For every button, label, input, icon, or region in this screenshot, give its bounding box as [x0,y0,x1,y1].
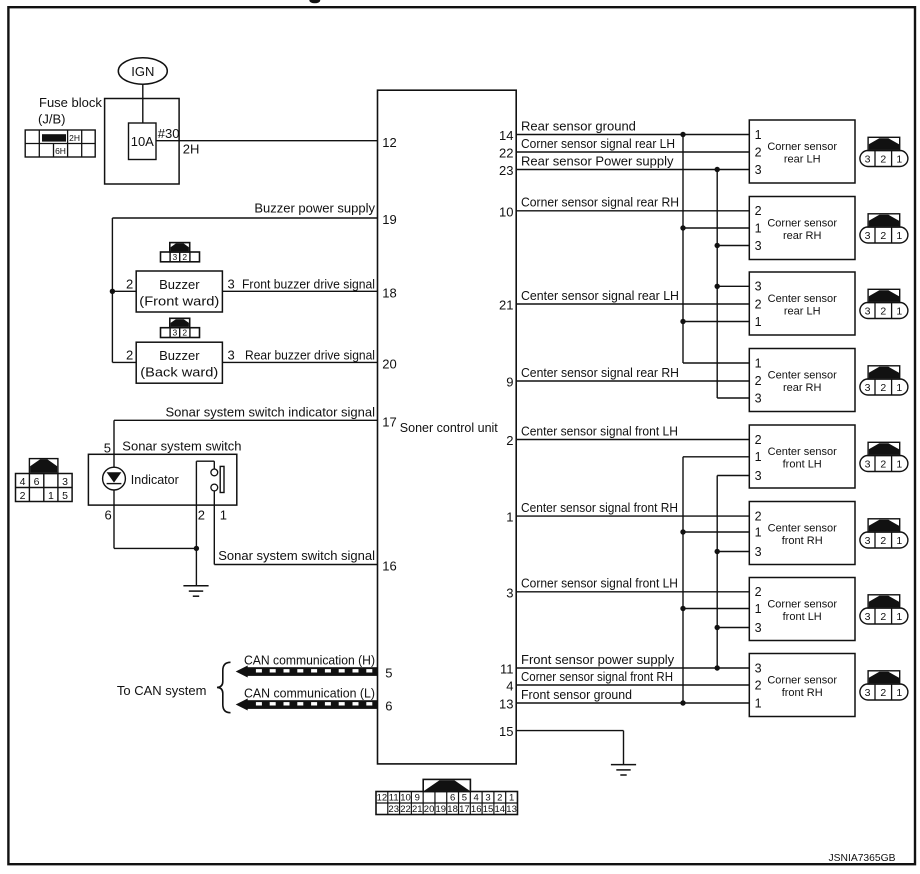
svg-text:Buzzer: Buzzer [159,277,200,292]
svg-text:2: 2 [506,433,513,448]
svg-text:Center sensor signal front LH: Center sensor signal front LH [521,423,678,438]
junction (683.0,228) [680,225,685,230]
wire bus to front LH center pin 1 [683,456,749,458]
wire pin 18 front buzzer drive [222,290,377,292]
svg-text:Rear buzzer drive signal: Rear buzzer drive signal [245,347,375,362]
svg-text:JSNIA7365GB: JSNIA7365GB [829,852,896,864]
sensor box Center sensor front RH [749,502,855,565]
svg-text:3: 3 [755,469,762,483]
svg-text:Indicator: Indicator [131,473,179,487]
buzzer BZ2 rear [136,342,222,383]
svg-text:2: 2 [198,508,205,523]
wire pin 6 joins ground [114,547,196,549]
svg-text:12: 12 [382,135,396,150]
svg-text:20: 20 [382,357,396,372]
svg-text:Corner sensor: Corner sensor [767,218,837,230]
svg-text:17: 17 [382,415,396,430]
svg-text:Corner sensor: Corner sensor [767,141,837,153]
svg-text:13: 13 [499,697,513,712]
junction buzzer power bus [110,289,115,294]
wire bus to front buzzer pin 2 [112,290,136,292]
wire Corner sensor signal front LH [516,591,749,593]
6-pin switch connector [16,459,73,502]
svg-text:10A: 10A [131,134,154,149]
svg-text:Sonar system switch: Sonar system switch [122,439,241,454]
svg-text:1: 1 [755,356,762,370]
svg-text:Center sensor: Center sensor [768,523,837,535]
svg-text:17: 17 [459,804,470,815]
svg-text:(Front ward): (Front ward) [139,294,219,309]
svg-text:5: 5 [62,490,68,502]
switch contact assembly [196,461,224,505]
svg-text:6: 6 [34,476,40,488]
wire CAN L dashed arrow [236,699,378,711]
svg-text:6: 6 [450,793,455,804]
svg-text:3: 3 [755,280,762,294]
svg-text:Center sensor: Center sensor [768,293,837,305]
junction (717.2,245.5) [715,243,720,248]
wire Center sensor signal rear LH [516,303,749,305]
wire Corner sensor signal front RH [516,684,749,686]
cropped title glyph [309,0,320,3]
junction (717.2,627.5) [715,625,720,630]
svg-text:Front sensor ground: Front sensor ground [521,687,632,702]
svg-text:Rear sensor Power supply: Rear sensor Power supply [521,153,674,168]
soner control unit U1 [378,90,517,764]
svg-text:4: 4 [474,793,479,804]
svg-text:1: 1 [755,221,762,235]
svg-text:9: 9 [506,375,513,390]
wire CAN H dashed arrow [236,666,378,678]
svg-text:3: 3 [228,276,235,291]
junction (683.0,608.5) [680,606,685,611]
junction (683.0,703) [680,700,685,705]
svg-text:Center sensor signal front RH: Center sensor signal front RH [521,500,678,515]
connector Center sensor rear LH [860,289,908,318]
svg-text:front LH: front LH [783,611,822,623]
svg-text:22: 22 [400,804,411,815]
rear ground bus [682,135,684,364]
wire Center sensor signal front LH [516,439,749,441]
svg-text:16: 16 [382,559,396,574]
svg-text:23: 23 [388,804,399,815]
svg-text:15: 15 [499,724,513,739]
connector above front buzzer [161,243,200,262]
wire fuse to pin 12 [156,140,378,142]
connector Corner sensor rear RH [860,214,908,243]
wire indicator cathode pin 6 [113,490,115,548]
wire pin 19 buzzer power supply [112,217,377,219]
svg-text:18: 18 [382,286,396,301]
svg-text:2H: 2H [183,142,200,157]
svg-text:1: 1 [755,315,762,329]
svg-text:Buzzer power supply: Buzzer power supply [254,201,375,216]
svg-text:3: 3 [755,621,762,635]
svg-text:6: 6 [104,508,111,523]
svg-text:10: 10 [400,793,411,804]
connector Center sensor front LH [860,442,908,471]
svg-text:2: 2 [126,276,133,291]
svg-text:Sonar system switch signal: Sonar system switch signal [218,548,375,563]
ground switch [183,586,208,596]
svg-text:14: 14 [495,804,506,815]
sensor box Center sensor rear RH [749,349,855,412]
junction (717.2,668) [715,665,720,670]
svg-text:11: 11 [389,793,399,804]
svg-text:4: 4 [506,679,513,694]
brace to CAN system [217,662,231,712]
wire pin 20 rear buzzer drive [222,361,377,363]
wire bus to rear LH center pin 1 [683,321,749,323]
svg-text:Center sensor: Center sensor [768,370,837,382]
svg-text:3: 3 [755,545,762,559]
sonar system switch SW1 [88,454,236,505]
junction (717.2,551.5) [715,549,720,554]
rear power bus [716,170,718,399]
svg-text:#30: #30 [158,126,180,141]
power source IGN [118,58,167,84]
svg-text:3: 3 [485,793,490,804]
wire bus to rear RH corner pin 1 [683,227,749,229]
svg-text:9: 9 [415,793,420,804]
wire bus to rear RH corner pin 3 [717,245,749,247]
svg-text:Fuse block: Fuse block [39,95,102,110]
svg-text:2: 2 [755,433,762,447]
svg-text:21: 21 [412,804,423,815]
svg-text:2: 2 [755,374,762,388]
svg-text:1: 1 [755,525,762,539]
junction (683.0,321.5) [680,319,685,324]
svg-text:3: 3 [506,585,513,600]
junction (683.0,532) [680,529,685,534]
svg-text:2: 2 [755,145,762,159]
svg-text:1: 1 [755,128,762,142]
junction (683.0,134.5) [680,132,685,137]
wire pin 15 to ground [516,730,623,732]
svg-text:Rear sensor ground: Rear sensor ground [521,118,636,133]
svg-text:22: 22 [499,146,513,161]
wire Corner sensor signal rear RH [516,210,749,212]
wire switch pin 2 to ground [195,505,197,586]
fuse 10A #30 [129,123,157,160]
svg-text:Soner control unit: Soner control unit [400,421,499,435]
junction (717.2,286.3) [715,284,720,289]
junction (717.2,169.5) [715,167,720,172]
wire pin 17 indicator signal [114,419,378,421]
wire bus to front RH center pin 1 [683,531,749,533]
svg-text:1: 1 [506,510,513,525]
svg-text:front RH: front RH [782,535,823,547]
svg-text:2: 2 [755,585,762,599]
svg-text:CAN communication (L): CAN communication (L) [244,686,375,701]
connector Corner sensor rear LH [860,137,908,166]
svg-text:To CAN system: To CAN system [117,683,207,698]
connector Center sensor front RH [860,519,908,548]
connector Corner sensor front LH [860,595,908,624]
wire pin 16 switch signal [214,564,377,566]
svg-text:20: 20 [424,804,435,815]
svg-text:2: 2 [497,793,502,804]
svg-text:3: 3 [755,391,762,405]
svg-text:2: 2 [755,510,762,524]
svg-text:Corner sensor signal rear RH: Corner sensor signal rear RH [521,195,679,210]
svg-text:Corner sensor signal rear LH: Corner sensor signal rear LH [521,136,675,151]
svg-text:rear LH: rear LH [784,305,821,317]
svg-text:CAN communication (H): CAN communication (H) [244,653,375,668]
wire Rear sensor ground [516,134,749,136]
svg-text:12: 12 [377,793,388,804]
svg-text:Front buzzer drive signal: Front buzzer drive signal [242,276,375,291]
connector Corner sensor front RH [860,671,908,700]
svg-text:front LH: front LH [783,458,822,470]
svg-text:(Back ward): (Back ward) [140,365,218,380]
sensor box Corner sensor rear LH [749,120,855,183]
svg-text:23: 23 [499,163,513,178]
wire Rear sensor Power supply [516,169,749,171]
svg-text:15: 15 [483,804,494,815]
wire bus to rear RH center pin 1 [683,362,749,364]
wire switch pin 1 [213,491,215,565]
svg-text:2: 2 [126,347,133,362]
svg-text:Corner sensor: Corner sensor [767,599,837,611]
svg-text:6: 6 [385,699,392,714]
svg-text:front RH: front RH [782,687,823,699]
svg-text:2: 2 [755,297,762,311]
svg-text:6H: 6H [55,146,66,156]
svg-text:16: 16 [471,804,482,815]
wire Front sensor ground [516,702,749,704]
buzzer BZ1 front [136,271,222,312]
svg-text:Buzzer: Buzzer [159,348,200,363]
sensor box Corner sensor front LH [749,578,855,641]
svg-text:3: 3 [228,347,235,362]
svg-text:10: 10 [499,204,513,219]
ground control unit [611,765,636,775]
front power bus [716,476,718,669]
wire bus to front LH center pin 3 [717,475,749,477]
svg-text:1: 1 [220,508,227,523]
svg-text:21: 21 [499,298,513,313]
svg-text:Center sensor signal rear LH: Center sensor signal rear LH [521,288,679,303]
sensor box Center sensor rear LH [749,272,855,335]
svg-text:19: 19 [382,212,396,227]
svg-text:rear LH: rear LH [784,153,821,165]
svg-text:1: 1 [755,696,762,710]
indicator LED D1 [103,467,126,490]
svg-text:19: 19 [436,804,447,815]
svg-text:11: 11 [500,662,514,677]
svg-text:18: 18 [447,804,458,815]
svg-text:13: 13 [506,804,517,815]
svg-text:IGN: IGN [131,64,154,79]
wire bus to front RH center pin 3 [717,551,749,553]
sensor box Corner sensor front RH [749,654,855,717]
svg-text:3: 3 [755,239,762,253]
wire Corner sensor signal rear LH [516,151,749,153]
svg-text:1: 1 [48,490,54,502]
fuse block connector grid 2H/6H [25,130,95,157]
wire IGN to fuse [142,84,144,123]
svg-text:Corner sensor signal front RH: Corner sensor signal front RH [521,669,673,684]
front ground bus [682,457,684,703]
svg-text:2: 2 [20,490,26,502]
svg-text:14: 14 [499,128,513,143]
sensor box Corner sensor rear RH [749,197,855,260]
svg-text:Center sensor signal rear RH: Center sensor signal rear RH [521,365,679,380]
wire bus to front LH corner pin 1 [683,608,749,610]
wire bus to front LH corner pin 3 [717,627,749,629]
svg-text:Corner sensor: Corner sensor [767,675,837,687]
sensor box Center sensor front LH [749,425,855,488]
svg-text:5: 5 [462,793,467,804]
svg-text:(J/B): (J/B) [38,112,65,127]
wire Center sensor signal front RH [516,515,749,517]
wire bus to rear buzzer pin 2 [112,361,136,363]
connector above rear buzzer [161,318,200,337]
control unit connector pinout [376,779,517,815]
svg-text:1: 1 [755,602,762,616]
svg-text:5: 5 [104,441,111,456]
svg-text:3: 3 [755,661,762,675]
svg-text:Center sensor: Center sensor [768,446,837,458]
svg-text:rear RH: rear RH [783,382,822,394]
svg-text:1: 1 [755,450,762,464]
svg-text:2: 2 [755,204,762,218]
wire Front sensor power supply [516,667,749,669]
svg-text:rear RH: rear RH [783,230,822,242]
svg-text:2H: 2H [69,133,80,143]
svg-text:5: 5 [385,666,392,681]
svg-text:Corner sensor signal front LH: Corner sensor signal front LH [521,576,678,591]
wire bus to rear LH center pin 3 [717,285,749,287]
svg-text:3: 3 [62,476,68,488]
junction switch ground [194,546,199,551]
svg-text:1: 1 [509,793,514,804]
svg-text:4: 4 [20,476,26,488]
connector Center sensor rear RH [860,366,908,395]
fuse block box [105,99,180,185]
svg-text:Front sensor power supply: Front sensor power supply [521,652,675,667]
svg-text:Sonar system switch indicator: Sonar system switch indicator signal [165,405,375,420]
wire Center sensor signal rear RH [516,380,749,382]
svg-text:2: 2 [755,678,762,692]
svg-text:3: 3 [755,163,762,177]
wire bus to rear RH center pin 3 [717,397,749,399]
